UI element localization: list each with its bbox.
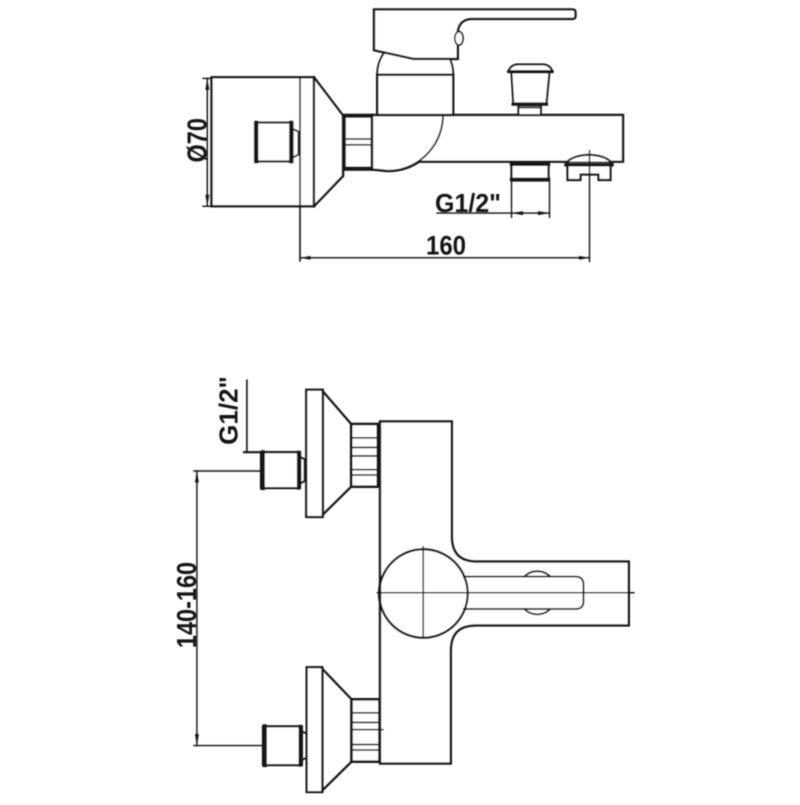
tub spout outlet (below body) bbox=[512, 163, 549, 181]
handle screw detail bbox=[455, 32, 463, 45]
outlet knob ellipse (seen from below) bbox=[518, 571, 558, 614]
leader line for G1/2" bbox=[246, 380, 248, 452]
shower outlet centerline bbox=[589, 151, 591, 262]
lower eccentric connector (bottom view) bbox=[263, 726, 302, 765]
upper escutcheon flange (bottom view) bbox=[306, 390, 323, 517]
svg-text:G1/2": G1/2" bbox=[435, 189, 501, 218]
dimension G1/2" (top view) bbox=[511, 181, 513, 218]
body/cylinder intersection arc bbox=[387, 115, 443, 171]
dimension 140-160 bbox=[194, 470, 261, 472]
spout inner bore bbox=[464, 577, 584, 609]
svg-text:Ø70: Ø70 bbox=[182, 118, 212, 162]
dimension Ø70 bbox=[203, 77, 212, 79]
shower hose connection dome (bottom right) bbox=[568, 155, 611, 162]
svg-text:G1/2": G1/2" bbox=[214, 376, 244, 445]
lever handle bbox=[374, 9, 576, 59]
svg-text:140-160: 140-160 bbox=[172, 562, 202, 648]
connector lip bbox=[293, 129, 299, 157]
eccentric connector behind plate bbox=[255, 123, 293, 162]
diverter knob (top of body) bbox=[509, 64, 553, 71]
lower escutcheon flange (bottom view) bbox=[307, 667, 323, 792]
upper hex nut (bottom view) bbox=[351, 424, 378, 487]
upper eccentric connector (bottom view) bbox=[244, 451, 300, 453]
faucet body (side view) bbox=[372, 115, 623, 171]
wall plate (in-wall body, side view) bbox=[212, 77, 315, 206]
wall reference line bbox=[299, 77, 301, 261]
faucet body (bottom view) bbox=[380, 421, 629, 763]
lower escutcheon cone bbox=[322, 669, 351, 791]
cartridge circle bbox=[379, 549, 468, 638]
escutcheon cone (side view) bbox=[314, 77, 343, 206]
lower hex nut (bottom view) bbox=[352, 699, 380, 761]
re-stroke circle over bore fill bbox=[379, 549, 468, 638]
hex nut (side view) bbox=[345, 115, 373, 170]
dimension 160 bbox=[300, 257, 590, 259]
dome cap arc bbox=[377, 37, 453, 75]
centerline vertical bbox=[422, 547, 424, 639]
upper escutcheon cone bbox=[323, 391, 351, 515]
centerline horizontal bbox=[378, 592, 634, 594]
svg-text:160: 160 bbox=[426, 231, 466, 261]
cartridge housing body bbox=[377, 75, 453, 115]
